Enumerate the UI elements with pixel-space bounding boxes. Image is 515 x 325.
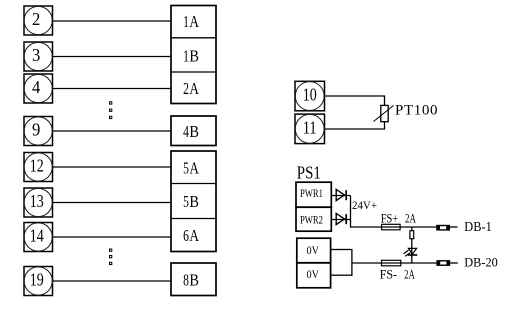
- svg-text:B: B: [189, 270, 199, 289]
- svg-text:DB-1: DB-1: [464, 219, 492, 234]
- svg-text:A: A: [189, 158, 199, 177]
- svg-text:9: 9: [32, 120, 40, 140]
- svg-text:FS-: FS-: [380, 267, 398, 281]
- label 1A: [183, 12, 199, 31]
- svg-text:24V+: 24V+: [352, 198, 377, 212]
- svg-text:4: 4: [32, 77, 40, 97]
- ground cell 0V upper: [297, 238, 331, 263]
- wire 0V bus to fuse FS-: [352, 262, 382, 264]
- terminal 2: [24, 6, 53, 35]
- svg-text:B: B: [189, 122, 199, 141]
- diode D2: [336, 213, 346, 224]
- svg-text:0V: 0V: [307, 243, 320, 257]
- wire PWR1 to diode D1: [331, 195, 350, 197]
- svg-text:1: 1: [183, 12, 189, 31]
- 0V bus bridge: [331, 250, 352, 276]
- svg-text:8: 8: [183, 270, 189, 289]
- svg-text:1: 1: [183, 46, 189, 65]
- power cell PWR2: [296, 207, 331, 231]
- ellipsis dots upper: [110, 102, 112, 119]
- label 5B: [183, 192, 199, 211]
- connector DB-20: [436, 260, 457, 266]
- wire terminal19 to 8B: [53, 280, 172, 282]
- LED D3: [404, 248, 418, 256]
- power cell PWR1: [296, 182, 331, 207]
- svg-text:13: 13: [30, 191, 44, 211]
- wire PWR2 to diode D2: [331, 219, 350, 221]
- ellipsis dots lower: [110, 249, 112, 265]
- terminal 9: [24, 117, 53, 146]
- svg-text:A: A: [189, 226, 199, 245]
- svg-text:2A: 2A: [404, 267, 415, 281]
- ground cell 0V lower: [297, 263, 331, 288]
- wire terminal4 to 2A: [53, 88, 172, 90]
- svg-text:DB-20: DB-20: [464, 255, 498, 270]
- svg-text:4: 4: [183, 122, 189, 141]
- label 8B: [183, 270, 199, 289]
- resistor R1: [410, 231, 414, 239]
- module block cells 5A 5B 6A: [171, 151, 216, 252]
- wire fuse FS+ to DB-1: [400, 226, 436, 228]
- svg-text:2: 2: [183, 79, 189, 98]
- label 4B: [183, 122, 199, 141]
- svg-text:5: 5: [183, 158, 189, 177]
- wire terminal3 to 1B: [53, 56, 172, 58]
- svg-text:A: A: [189, 12, 199, 31]
- label 6A: [183, 226, 199, 245]
- svg-text:10: 10: [303, 85, 317, 105]
- node 24V+ bus: [351, 196, 382, 228]
- svg-text:PT100: PT100: [395, 103, 438, 119]
- module block cell 4B: [171, 116, 216, 146]
- wire terminal14 to 6A: [53, 236, 172, 238]
- svg-text:5: 5: [183, 192, 189, 211]
- svg-text:B: B: [189, 192, 199, 211]
- module block cell 8B: [171, 263, 216, 296]
- svg-text:14: 14: [30, 226, 44, 246]
- terminal 13: [24, 188, 53, 217]
- label 5A: [183, 158, 199, 177]
- label 2A: [183, 79, 199, 98]
- svg-text:19: 19: [30, 269, 44, 289]
- wire junction to LED resistor: [411, 227, 413, 263]
- label FS- 2A: [380, 267, 415, 281]
- module block cells 1A 1B 2A: [171, 6, 216, 104]
- connector DB-1: [436, 225, 457, 231]
- wire fuse FS- to DB-20: [401, 262, 437, 264]
- wire terminal10 to PT100: [325, 96, 385, 105]
- fuse FS-: [382, 260, 401, 266]
- svg-text:B: B: [189, 46, 199, 65]
- terminal 12: [24, 153, 53, 182]
- svg-text:3: 3: [32, 45, 40, 65]
- terminal 3: [24, 42, 53, 71]
- wire terminal13 to 5B: [53, 202, 172, 204]
- svg-text:11: 11: [303, 117, 317, 137]
- wire terminal12 to 5A: [53, 166, 172, 168]
- terminal 19: [24, 267, 53, 296]
- svg-text:2A: 2A: [405, 212, 416, 226]
- svg-text:FS+: FS+: [381, 212, 399, 226]
- terminal 11: [295, 114, 325, 144]
- svg-text:12: 12: [30, 156, 44, 176]
- terminal 4: [24, 74, 53, 103]
- fuse FS+: [382, 224, 401, 230]
- wire terminal2 to 1A: [53, 20, 172, 22]
- terminal 10: [295, 81, 325, 111]
- resistor PT100: [374, 105, 394, 121]
- wire terminal11 to PT100: [325, 122, 385, 129]
- terminal 14: [24, 223, 53, 252]
- svg-text:0V: 0V: [307, 267, 320, 281]
- diode D1: [336, 189, 346, 200]
- label FS+ 2A: [381, 212, 416, 226]
- svg-text:PWR1: PWR1: [300, 186, 323, 200]
- svg-text:A: A: [189, 79, 199, 98]
- svg-text:PS1: PS1: [297, 162, 321, 182]
- wire terminal9 to 4B: [53, 130, 172, 132]
- svg-text:2: 2: [32, 9, 40, 29]
- svg-text:6: 6: [183, 226, 189, 245]
- label 1B: [183, 46, 199, 65]
- svg-text:PWR2: PWR2: [300, 212, 323, 226]
